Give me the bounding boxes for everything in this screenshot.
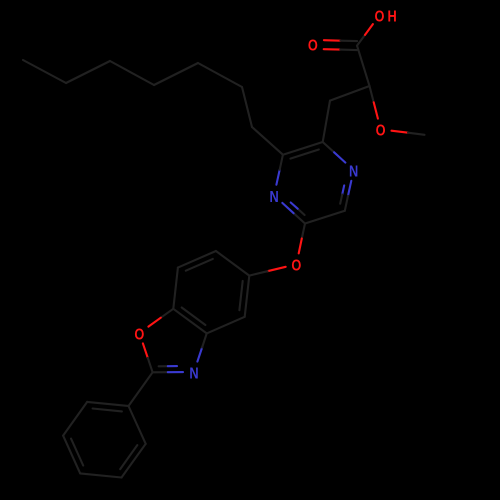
benzo double bond C7=C6	[178, 251, 216, 268]
svg-text:O: O	[376, 122, 386, 140]
benzo double bond C5=C4	[245, 276, 250, 317]
bond O aryl ether-benzoxazole C5	[268, 267, 286, 271]
benzo bond C4-C3a	[207, 317, 245, 334]
bond oxazole C2-phenyl ipso	[129, 372, 153, 406]
bond Calpha-CH2	[330, 86, 370, 101]
pyrazine bond C3-N4	[323, 142, 334, 152]
alkyl chain bond CH2-CH2 b	[198, 63, 242, 87]
pyrazine N4 label	[349, 163, 358, 181]
phenyl double bond para=meta	[63, 436, 80, 474]
benzo bond C6-C5	[216, 251, 249, 276]
C=O carbonyl double bond	[324, 48, 341, 50]
oxazole bond N3-C3a	[197, 348, 202, 362]
pyrazine double bond C6=N1	[294, 213, 305, 223]
carbonyl O label	[308, 37, 318, 55]
alkyl chain bond pyrazine C2-CH2	[252, 127, 283, 155]
svg-text:O: O	[375, 8, 385, 26]
phenyl double bond ortho=ipso	[87, 402, 128, 406]
svg-text:O: O	[308, 37, 318, 55]
phenyl bond meta-para	[80, 473, 121, 477]
oxazole double bond C2=N3	[153, 371, 168, 373]
pyrazine bond N1-C2	[276, 170, 279, 185]
pyrazine bond C5-C6	[305, 211, 345, 224]
oxazole N3 label	[189, 365, 198, 383]
pyrazine double bond N4=C5	[348, 181, 351, 196]
aryl ether O label	[291, 257, 301, 275]
pyrazine double bond C2=C3	[283, 142, 323, 155]
hydroxyl OH label	[375, 8, 385, 26]
phenyl double bond ortho=meta	[122, 444, 146, 478]
svg-text:N: N	[349, 163, 358, 181]
svg-text:H: H	[387, 8, 396, 26]
bond Calpha-O ether	[370, 86, 374, 102]
svg-text:N: N	[189, 365, 198, 383]
oxazole bond C7a-O1	[161, 309, 174, 318]
alkyl chain bond CH2-CH2 e	[66, 61, 110, 83]
svg-text:N: N	[269, 189, 278, 207]
bond pyrazine C6-O aryl ether	[302, 224, 305, 239]
bond C1-Calpha	[357, 46, 370, 86]
C-OH bond	[357, 35, 365, 46]
alkyl chain bond CH2-CH2 d	[110, 61, 154, 85]
svg-text:O: O	[134, 326, 144, 344]
methoxy O label	[376, 122, 386, 140]
alkyl chain bond CH2-CH3 end	[23, 60, 66, 83]
bond O-CH3 methyl	[392, 131, 409, 133]
alkyl chain bond CH2-CH2 a	[242, 87, 252, 127]
bond CH2-pyrazine C3	[323, 101, 330, 142]
oxazole O1 label	[134, 326, 144, 344]
svg-text:O: O	[291, 257, 301, 275]
phenyl bond ipso-ortho	[129, 406, 146, 444]
phenyl bond meta-ortho	[63, 402, 87, 436]
alkyl chain bond CH2-CH2 c	[154, 63, 198, 85]
benzo fused double bond C3a=C7a	[173, 309, 206, 334]
oxazole bond O1-C2	[143, 343, 148, 358]
benzo bond C7a-C7	[173, 268, 178, 309]
pyrazine N1 label	[269, 189, 278, 207]
